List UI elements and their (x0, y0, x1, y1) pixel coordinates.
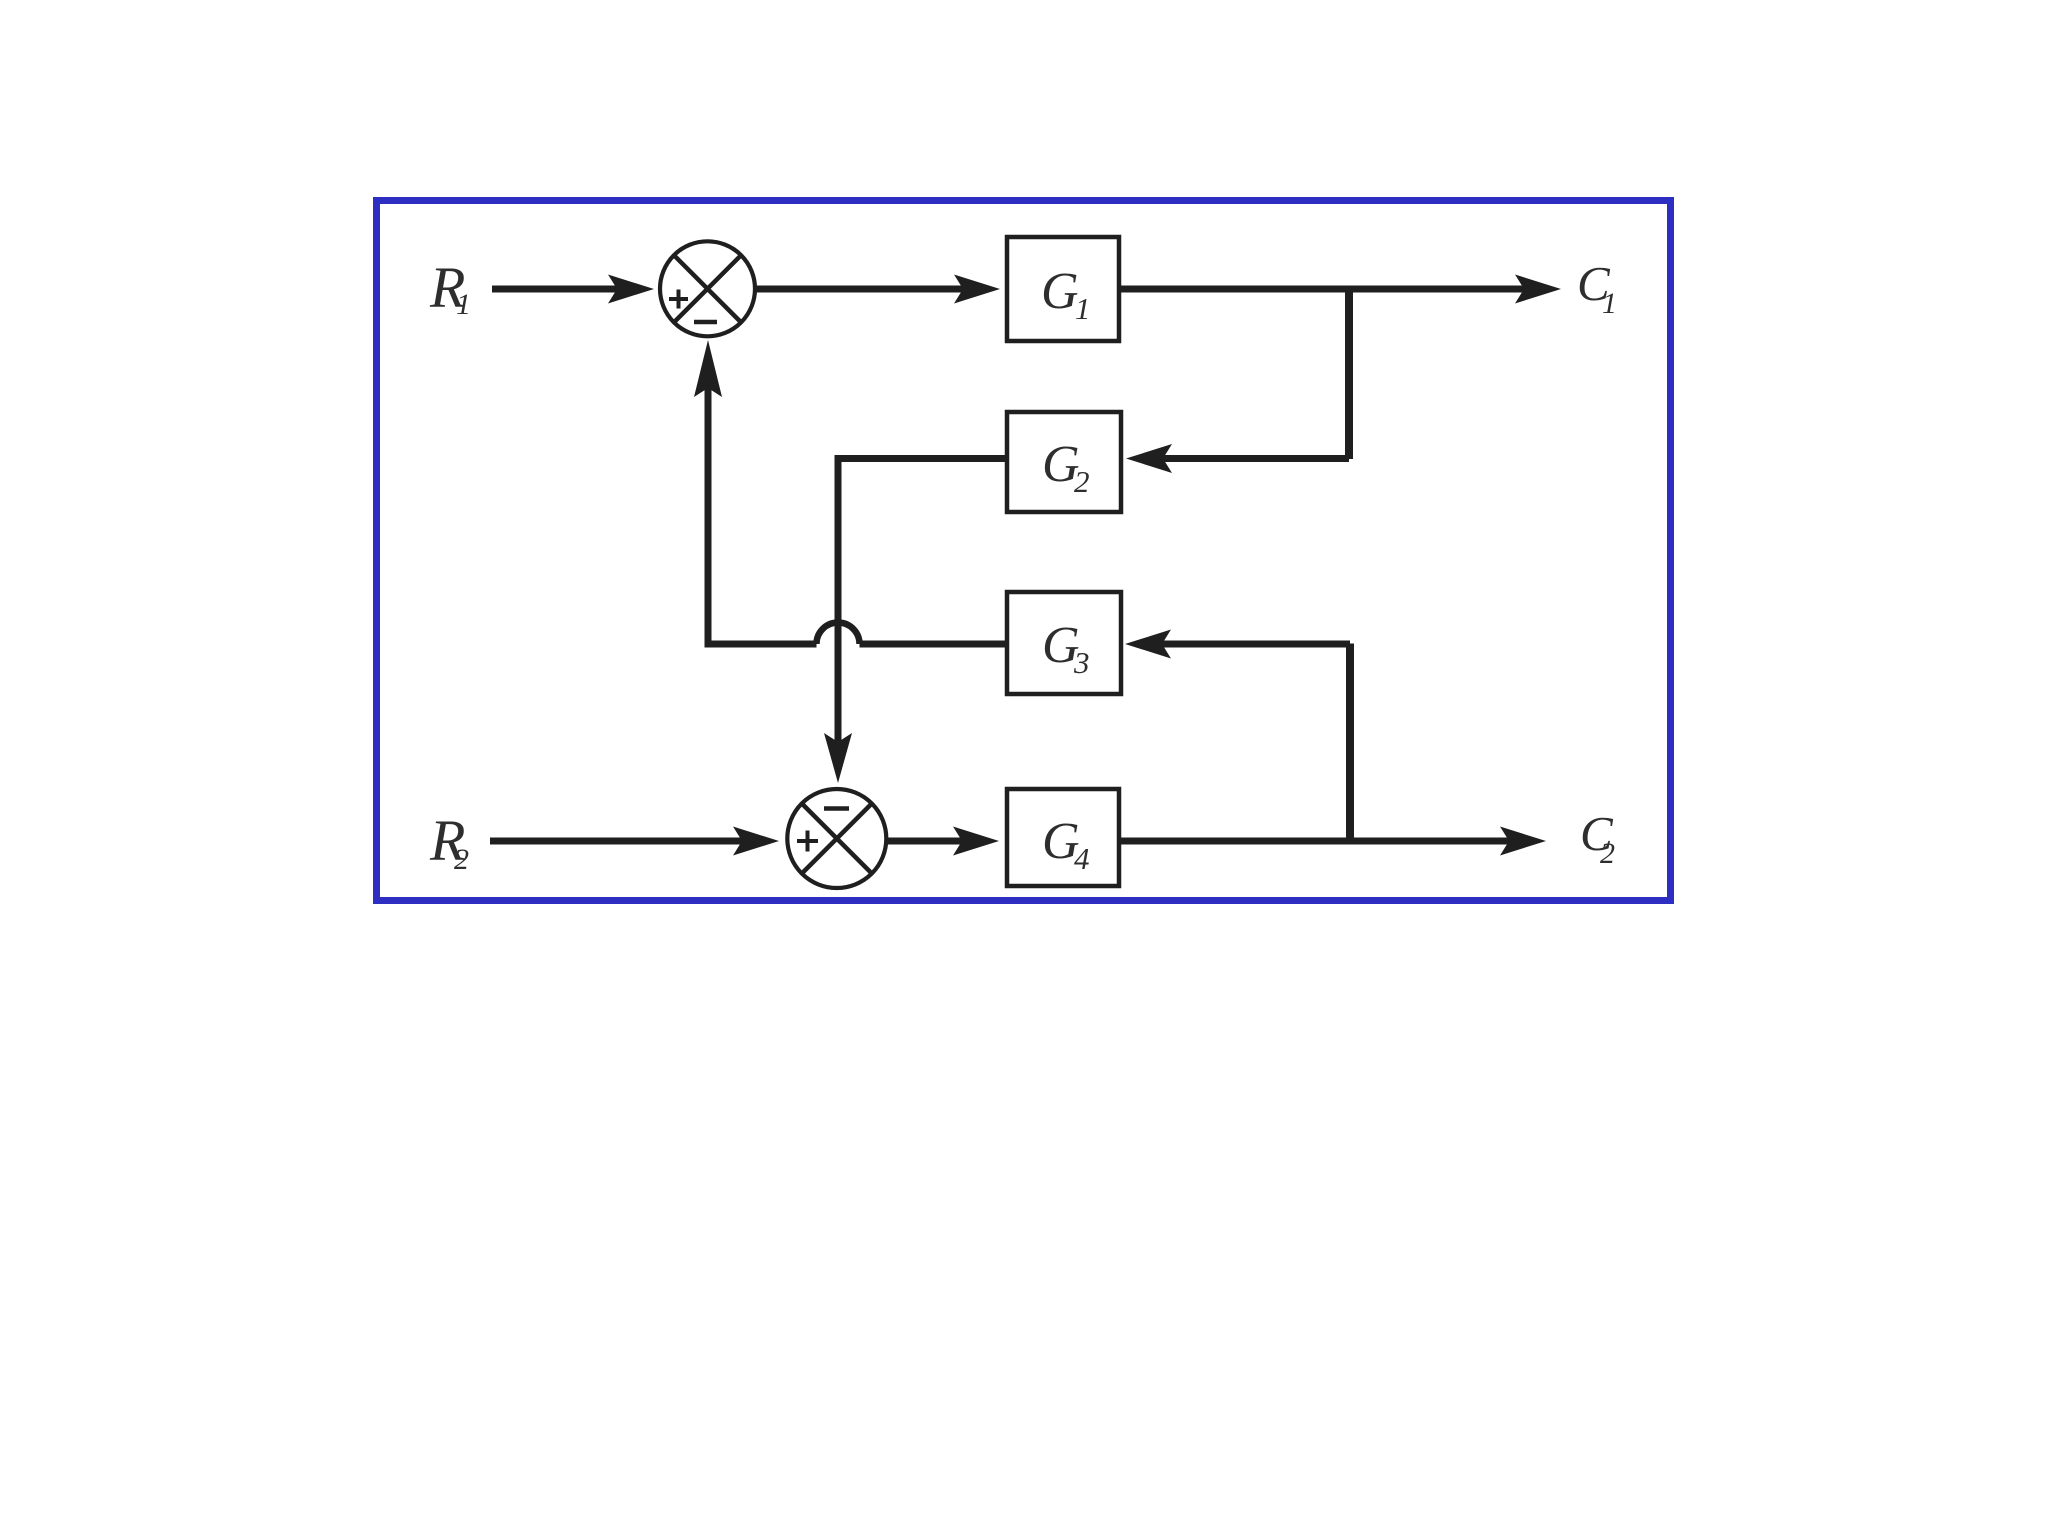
svg-text:4: 4 (1074, 841, 1090, 876)
arrowhead into S2 top (824, 733, 852, 783)
arrowhead into S1 bottom (694, 340, 722, 397)
svg-text:2: 2 (1600, 837, 1615, 870)
svg-text:G: G (1041, 263, 1079, 320)
wire branch from C1 line down to G2 input level (1345, 286, 1353, 459)
arrowhead to C1 (1515, 275, 1561, 304)
wire G3 output leftward (left part after hop) (705, 641, 817, 648)
arrowhead into G2 right side (1126, 444, 1172, 473)
wire branch from C2 line up to G3 input level (1346, 644, 1354, 845)
arrowhead into S2 left (733, 827, 779, 856)
arrowhead into S1 (608, 275, 654, 304)
wire G4 to C2 (1119, 838, 1513, 845)
wire S1 to G1 (754, 286, 968, 293)
wire elbow down toward S2 (835, 455, 842, 746)
node R2 input label (429, 808, 469, 876)
svg-text:1: 1 (1602, 287, 1617, 320)
svg-text:3: 3 (1073, 645, 1090, 680)
arrowhead into G1 (954, 275, 1000, 304)
plus sign S1 (669, 290, 688, 309)
arrowhead into G4 (953, 827, 999, 856)
wire branch to G2 (1158, 455, 1349, 462)
wire R2 to S2 (490, 838, 746, 845)
minus sign S2 (824, 806, 849, 811)
wire S2 to G4 (886, 838, 966, 845)
summing junction S2 (787, 789, 886, 888)
crossover hop over vertical wire (817, 623, 860, 645)
svg-text:2: 2 (454, 843, 469, 876)
svg-text:1: 1 (456, 288, 471, 321)
wire R1 to summing junction S1 (492, 286, 624, 293)
block G3 (1007, 592, 1121, 694)
summing junction S1 (660, 241, 755, 336)
wire G3 output leftward (right part before hop) (860, 641, 1008, 648)
node C2 output label (1580, 806, 1615, 870)
wire branch to G3 (1158, 641, 1350, 648)
block G4 (1007, 789, 1119, 886)
frame: blue border of figure (377, 201, 1671, 901)
plus sign S2 (797, 831, 818, 852)
minus sign S1 (694, 320, 717, 325)
wire elbow up to S1 bottom (705, 384, 712, 648)
arrowhead into G3 right side (1125, 630, 1171, 659)
svg-text:1: 1 (1075, 291, 1091, 326)
svg-text:2: 2 (1074, 464, 1090, 499)
block G1 (1007, 237, 1119, 341)
node R1 input label (429, 255, 471, 321)
arrowhead to C2 (1500, 827, 1546, 856)
wire G2 output to elbow (835, 455, 1008, 462)
node C1 output label (1577, 256, 1617, 320)
wire G1 to C1 (1119, 286, 1528, 293)
block G2 (1007, 412, 1121, 512)
